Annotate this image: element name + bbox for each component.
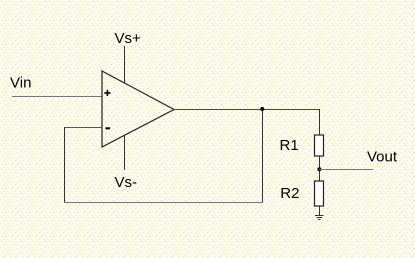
wire R2 to ground [319,206,321,216]
svg-text:R1: R1 [280,137,299,154]
pin - (inverting input) [106,127,111,129]
svg-text:Vs+: Vs+ [115,30,142,47]
op-amp U1 [102,71,174,147]
wire Vs+ supply [124,46,126,84]
svg-text:R2: R2 [280,185,299,202]
wire R1 to node [319,156,321,181]
node output junction [260,107,264,111]
svg-text:Vout: Vout [367,149,398,166]
wire inverting input horizontal [65,127,103,129]
wire feedback left vertical [64,127,66,203]
wire Vs- supply [124,136,126,171]
wire Vin input [12,96,102,98]
wire feedback bottom horizontal [64,202,263,204]
wire feedback right vertical [262,109,264,203]
wire to Vout [319,169,373,171]
resistor R1 [315,135,324,156]
pin + (non-inverting input) [104,90,110,96]
wire output down to R1 [319,109,321,135]
wire output [174,109,319,111]
svg-text:Vs-: Vs- [115,174,138,191]
svg-text:Vin: Vin [10,75,31,92]
ground [315,216,324,220]
node Vout junction [317,167,321,171]
resistor R2 [315,181,324,206]
